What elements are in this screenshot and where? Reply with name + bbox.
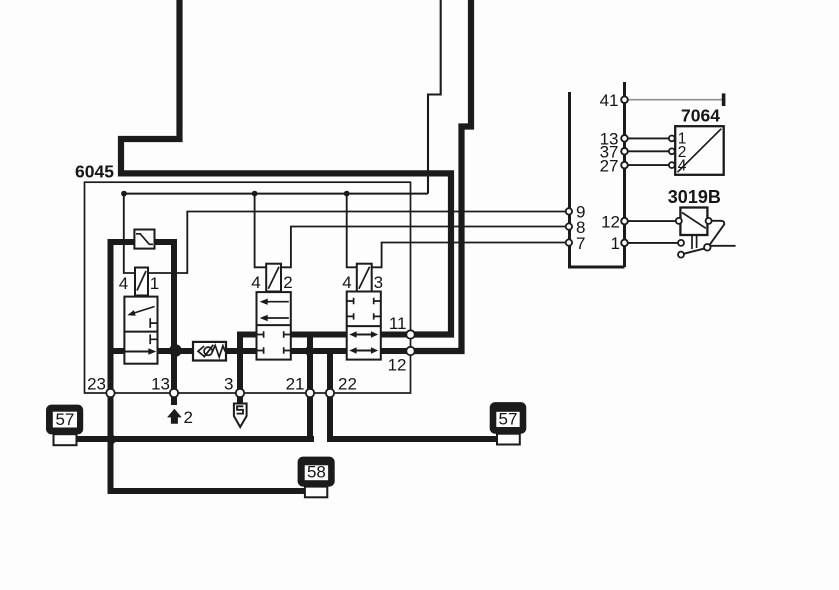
wire thick lower bus throttle to V2: [225, 348, 258, 354]
V2 lower cell blocked ports: [257, 331, 264, 353]
terminal 11: [406, 330, 414, 338]
junction wedge at 23-drop / 57-wire: [111, 432, 118, 447]
svg-text:21: 21: [286, 375, 305, 394]
svg-text:12: 12: [601, 212, 620, 231]
wire thick terminal 13 riser: [171, 239, 177, 405]
solenoid coil V2 (pins 4,2): [266, 264, 281, 292]
svg-text:2: 2: [184, 408, 193, 427]
box component 6045 outline: [85, 182, 411, 393]
svg-text:11: 11: [389, 314, 407, 333]
solenoid coil V1 (pins 4,1): [135, 268, 148, 296]
terminal 3: [236, 389, 244, 397]
3019B actuator link: [692, 235, 697, 249]
wire rail A (solenoid supply rail): [124, 193, 428, 195]
wire V3 solenoid pin 3 to terminal 7: [372, 243, 567, 268]
node 27: [621, 162, 628, 169]
svg-text:12: 12: [388, 356, 407, 375]
wire thick lower bus V3 to node 12: [380, 348, 412, 354]
svg-text:4: 4: [678, 158, 687, 175]
7064 pin circles: [669, 136, 675, 142]
svg-text:6045: 6045: [75, 162, 114, 182]
terminal 23: [106, 389, 114, 397]
wire thick terminal 22 drop: [327, 348, 333, 442]
wire V3 solenoid pin 4 feed: [347, 194, 357, 268]
wire node 1 to 3019B switch: [628, 242, 678, 244]
wire thick lower bus V2 to V3: [290, 348, 348, 354]
junction wedge at 21-drop / lower bus: [304, 343, 311, 360]
wire V2 solenoid pin 2 to terminal 8: [281, 227, 566, 268]
V3 lower cell double arrow 2: [354, 350, 375, 352]
V1 upper cell flow arrow: [133, 307, 155, 314]
V3 lower cell double arrow 1: [354, 334, 375, 336]
svg-text:57: 57: [499, 409, 518, 428]
svg-text:3: 3: [374, 273, 383, 292]
svg-text:22: 22: [338, 375, 357, 394]
pilot check-valve box on V1 top rail: [134, 230, 154, 249]
svg-text:4: 4: [119, 274, 128, 293]
svg-text:57: 57: [55, 410, 74, 429]
wires to component 7064 pins 1,2,4: [628, 138, 670, 165]
node 37: [621, 148, 628, 155]
solenoid coil V3 (pins 4,3): [357, 264, 372, 292]
wire thick left branch: terminal 23 drop and run to connector 58: [111, 239, 307, 491]
terminal 21: [306, 389, 314, 397]
svg-text:13: 13: [151, 375, 170, 394]
wire thick upper bus V2 to V3: [290, 332, 348, 338]
V2 upper cell arrow 1: [266, 301, 289, 303]
component 3019B relay coil box: [680, 208, 707, 236]
connector 57 left: [46, 405, 83, 446]
wire thick V1 outlet to throttle valve: [156, 348, 194, 354]
terminal 13: [170, 389, 178, 397]
wire thick V1 inlet from left branch: [108, 348, 126, 354]
svg-text:3: 3: [224, 375, 233, 394]
connector 57 right: [490, 402, 527, 444]
wire node 12 to 3019B: [628, 220, 676, 222]
terminal 9: [566, 208, 572, 214]
wire thick connector 57 left to terminal 21 drop: [74, 436, 314, 442]
wire V1 solenoid pin 4 feed: [124, 194, 135, 273]
connector 58: [298, 457, 335, 498]
wire thick upper bus stub to V2: [237, 332, 258, 338]
wire thin feed from top to rail A: [428, 0, 441, 194]
svg-text:7: 7: [576, 234, 585, 253]
svg-text:4: 4: [342, 273, 351, 292]
svg-text:41: 41: [600, 91, 619, 110]
bus bar vertical C with terminals 9,8,7: [570, 92, 625, 267]
3019B switch lever and contacts: [684, 249, 704, 254]
terminal 8: [566, 223, 572, 229]
node junction dot rail A / valve V1: [121, 191, 127, 197]
valve V3 body: [347, 292, 381, 360]
wire node 41 with end terminator: [628, 99, 722, 101]
svg-text:7064: 7064: [681, 105, 720, 125]
terminal 7: [566, 239, 572, 245]
wire thick terminal 22 to connector 57 right: [327, 436, 503, 442]
wire thick supply feed to node 12 (top right): [410, 0, 471, 351]
3019B switch output stub: [711, 245, 736, 247]
component 7064 (diode unit): [675, 126, 724, 175]
svg-text:58: 58: [307, 463, 326, 482]
node junction dot rail A / valve V3: [344, 191, 350, 197]
V1 lower cell blocked port: [150, 334, 157, 344]
vent symbol below terminal 3: [234, 404, 247, 428]
svg-text:1: 1: [150, 274, 159, 293]
V3 upper cell blocked ports: [347, 298, 354, 320]
node 13: [621, 135, 628, 142]
svg-text:3019B: 3019B: [668, 187, 721, 207]
svg-text:27: 27: [600, 156, 619, 175]
one-way restrictor (throttle) valve: [193, 342, 226, 361]
pressure source arrow below terminal 13: [167, 409, 182, 424]
wire thick upper bus V3 to node 11: [380, 332, 412, 338]
node junction dot rail A / valve V2: [252, 191, 258, 197]
svg-text:4: 4: [251, 273, 260, 292]
svg-text:23: 23: [87, 375, 106, 394]
wire thick terminal 3 drop: [237, 332, 243, 406]
svg-text:2: 2: [283, 273, 292, 292]
terminal 12: [406, 347, 414, 355]
terminal 22: [326, 389, 334, 397]
valve V2 body: [257, 292, 291, 360]
valve V1 body: [124, 297, 157, 364]
wire V1 solenoid pin 1 to terminal 9: [148, 212, 566, 274]
wire V2 solenoid pin 4 feed: [255, 194, 267, 268]
wire thick terminal 21 drop: [307, 332, 313, 443]
3019B coil output hook wire: [709, 221, 724, 246]
wire thick supply feed to node 11 (top left, labelled 6045 lead): [121, 0, 451, 335]
junction blob V1 outlet / 13 riser: [169, 344, 182, 357]
V1 lower cell flow arrow: [124, 351, 149, 353]
V1 upper cell blocked port: [150, 318, 157, 328]
bus bar vertical D: [623, 82, 626, 267]
svg-text:1: 1: [611, 234, 620, 253]
V2 upper cell arrow 2: [266, 317, 289, 319]
wire thick valve V1 top rail: [108, 239, 178, 245]
